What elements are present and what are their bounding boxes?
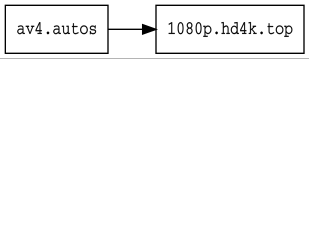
node 1080p.hd4k.top (box)	[156, 5, 304, 53]
bottom divider line	[0, 58, 309, 59]
node av4.autos (box)	[5, 5, 108, 53]
graph canvas	[0, 0, 309, 59]
background	[0, 0, 309, 59]
node 1080p.hd4k.top label	[169, 22, 293, 37]
edge arrowhead	[143, 25, 156, 34]
node av4.autos label	[17, 22, 96, 34]
edge av4.autos -> 1080p.hd4k.top (wire)	[108, 25, 156, 34]
